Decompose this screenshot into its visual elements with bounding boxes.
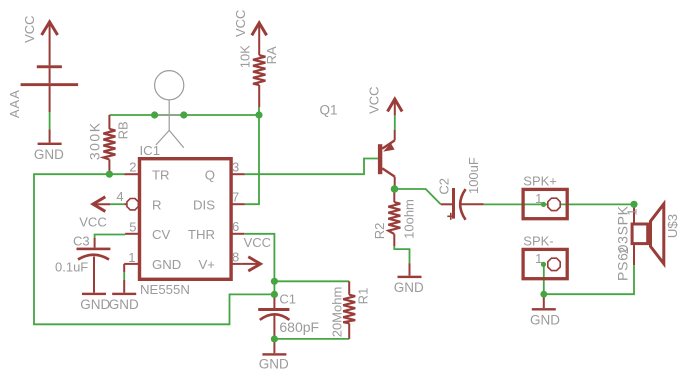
svg-text:0.1uF: 0.1uF — [55, 260, 88, 275]
capacitor C2 100uF polarized — [437, 157, 484, 220]
capacitor C1 680pF — [258, 292, 319, 354]
svg-text:10K: 10K — [238, 45, 253, 68]
svg-text:PS603SPK: PS603SPK — [614, 205, 630, 281]
svg-text:100uF: 100uF — [466, 157, 481, 194]
svg-text:AAA: AAA — [7, 89, 22, 118]
svg-text:10ohm: 10ohm — [402, 199, 417, 239]
transistor Q1 — [320, 103, 395, 190]
ground IC pin1 — [109, 293, 139, 312]
svg-text:VCC: VCC — [79, 215, 106, 230]
wire R1 bottom to C1 bottom node — [274, 338, 349, 340]
resistor RA 10K with VCC — [252, 23, 267, 115]
wire THR pin6 down to C1 top node — [244, 234, 274, 295]
speaker U$3 PS603SPK — [614, 204, 680, 281]
VCC arrow at pin 8 (right) — [242, 235, 271, 271]
svg-text:GND: GND — [34, 147, 64, 162]
wire pin1 to GND — [123, 264, 125, 293]
battery B1 AAA — [21, 22, 79, 143]
capacitor C3 0.1uF — [55, 234, 110, 293]
svg-text:NE555N: NE555N — [140, 282, 190, 297]
IC1 NE555N box — [140, 143, 232, 297]
svg-text:IC1: IC1 — [140, 143, 161, 158]
ground SPK — [530, 294, 560, 327]
svg-text:RA: RA — [264, 46, 279, 64]
svg-text:DIS: DIS — [193, 197, 215, 212]
svg-text:20Mohm: 20Mohm — [329, 287, 344, 338]
svg-text:GND: GND — [259, 357, 289, 372]
wire CV pin5 to C3 — [95, 235, 126, 239]
resistor R2 10ohm — [388, 189, 409, 276]
svg-text:TR: TR — [152, 168, 170, 183]
svg-text:THR: THR — [188, 227, 215, 242]
svg-text:300K: 300K — [86, 121, 102, 160]
svg-text:CV: CV — [152, 227, 171, 242]
svg-text:VCC: VCC — [233, 10, 248, 37]
svg-text:SPK-: SPK- — [523, 234, 553, 249]
resistor R1 20Mohm — [343, 281, 355, 339]
ground battery — [34, 143, 64, 162]
wire C2 to SPK+ to speaker pin1 — [484, 203, 634, 205]
svg-text:V+: V+ — [199, 257, 216, 272]
stick figure arms overlay — [155, 114, 184, 116]
svg-text:RB: RB — [116, 121, 131, 139]
svg-text:3: 3 — [232, 160, 239, 175]
svg-text:R2: R2 — [372, 223, 387, 240]
svg-text:GND: GND — [109, 297, 139, 312]
VCC arrow at Q1 — [366, 86, 402, 140]
svg-text:2: 2 — [616, 247, 631, 254]
wire Q output pin3 to Q1 base — [245, 159, 378, 175]
pin 4 inversion bubble — [127, 199, 138, 210]
svg-text:R: R — [152, 197, 162, 212]
stick figure actuator — [155, 71, 184, 148]
svg-text:C3: C3 — [73, 234, 90, 249]
svg-text:Q: Q — [205, 168, 215, 183]
svg-text:GND: GND — [394, 280, 424, 295]
svg-text:U$3: U$3 — [665, 214, 680, 238]
svg-text:2: 2 — [129, 159, 136, 174]
IC1 pin labels — [152, 168, 215, 272]
svg-text:7: 7 — [232, 190, 239, 205]
svg-text:Q1: Q1 — [320, 103, 338, 118]
svg-text:GND: GND — [152, 257, 181, 272]
VCC arrow at pin 4 (left) — [79, 197, 127, 230]
svg-text:C1: C1 — [279, 292, 296, 307]
svg-text:R1: R1 — [355, 288, 370, 305]
ground R2 — [394, 276, 424, 295]
wire RA-bottom down to DIS pin7 — [245, 115, 259, 204]
svg-text:1: 1 — [128, 250, 135, 265]
resistor RB 300K — [103, 115, 115, 174]
svg-text:VCC: VCC — [366, 86, 381, 113]
IC1 pin stubs and numbers — [116, 159, 244, 265]
wire R2 bottom jog to GND — [394, 246, 409, 263]
svg-text:SPK+: SPK+ — [523, 174, 557, 189]
svg-text:8: 8 — [232, 249, 239, 264]
svg-text:GND: GND — [80, 297, 110, 312]
wire SPK- to speaker pin2 — [544, 264, 634, 294]
connector SPK+ — [523, 174, 567, 219]
ground C1 — [259, 353, 289, 371]
svg-text:680pF: 680pF — [279, 319, 319, 335]
wire TR pin2 loop to C1 node — [34, 174, 274, 324]
svg-text:VCC: VCC — [22, 15, 37, 42]
svg-text:4: 4 — [116, 189, 123, 204]
ground C3 — [80, 293, 110, 312]
svg-text:5: 5 — [129, 220, 136, 235]
wire net RB-top to RA-bottom — [109, 114, 259, 116]
wire Q1 collector to C2 — [394, 189, 440, 204]
svg-text:C2: C2 — [437, 178, 452, 195]
connector SPK- — [523, 234, 567, 279]
svg-text:GND: GND — [530, 312, 560, 327]
svg-text:VCC: VCC — [244, 235, 271, 250]
wire C1 node to R1 top — [274, 280, 349, 282]
svg-text:6: 6 — [232, 219, 239, 234]
